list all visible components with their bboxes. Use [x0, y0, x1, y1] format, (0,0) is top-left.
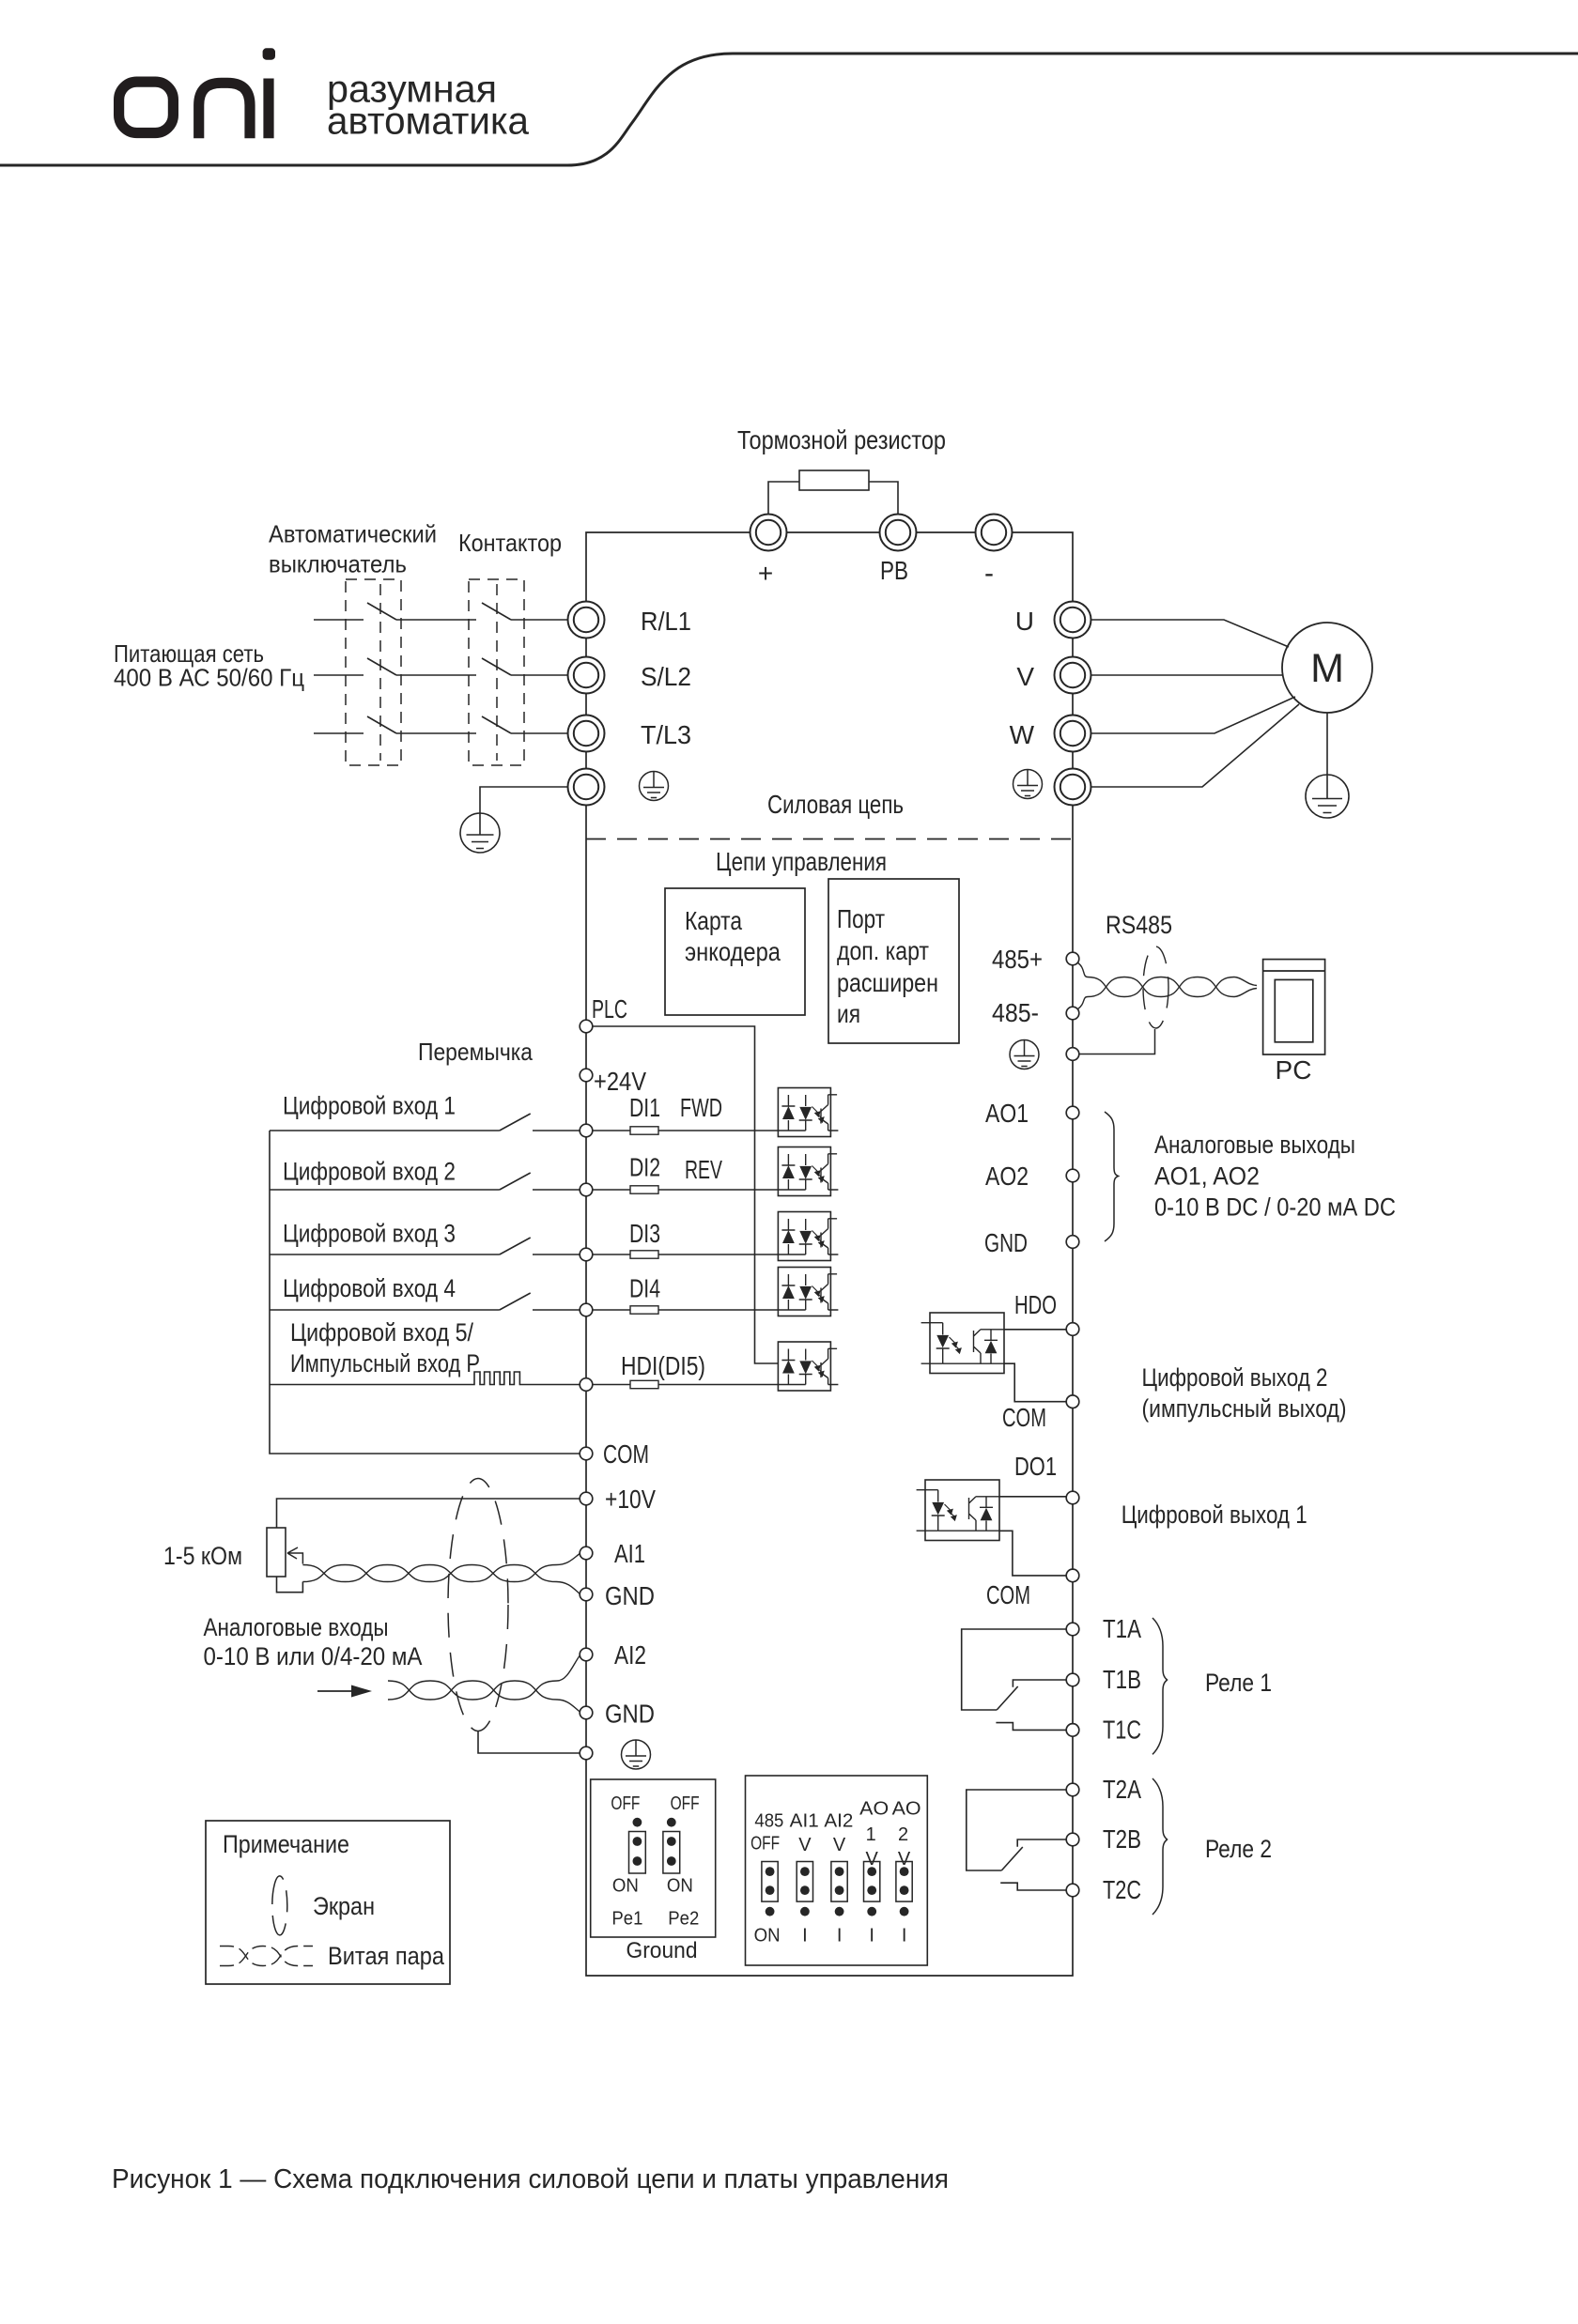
- svg-text:T2C: T2C: [1103, 1875, 1141, 1904]
- svg-text:Аналоговые выходы: Аналоговые выходы: [1154, 1131, 1355, 1159]
- optocoupler U4 DI4: [778, 1268, 838, 1316]
- shield drain wire RS485: [1079, 1029, 1155, 1054]
- svg-text:T2A: T2A: [1103, 1775, 1141, 1804]
- earth electrode symbol left: [460, 813, 500, 853]
- node +10V: [580, 1492, 593, 1505]
- relay Реле 1 brace: [1153, 1618, 1168, 1754]
- svg-text:R/L1: R/L1: [641, 607, 691, 636]
- node GND analog 1: [580, 1588, 593, 1601]
- svg-text:S/L2: S/L2: [641, 662, 691, 691]
- PC monitor: [1263, 960, 1325, 1054]
- svg-text:Автоматический: Автоматический: [269, 520, 437, 548]
- twisted pair AI2 strand A: [388, 1655, 580, 1700]
- svg-text:T1B: T1B: [1103, 1665, 1141, 1694]
- node 485-: [1066, 1007, 1079, 1020]
- svg-text:AI1: AI1: [790, 1811, 819, 1832]
- resistor DI1: [630, 1127, 658, 1134]
- brake resistor: [799, 470, 869, 490]
- node DI1: [580, 1124, 593, 1137]
- legend shield ellipse: [272, 1876, 287, 1935]
- svg-text:V: V: [866, 1849, 879, 1870]
- wire resistor to optocoupler DI1: [658, 1130, 778, 1131]
- svg-text:I: I: [837, 1926, 843, 1947]
- svg-text:Рисунок 1 — Схема подключения: Рисунок 1 — Схема подключения силовой це…: [112, 2164, 949, 2194]
- svg-text:T1A: T1A: [1103, 1614, 1141, 1643]
- svg-text:0-10 В DC / 0-20 мА DC: 0-10 В DC / 0-20 мА DC: [1154, 1193, 1396, 1222]
- node DO1: [1066, 1491, 1079, 1504]
- PE symbol at input: [640, 772, 669, 801]
- svg-text:485: 485: [754, 1811, 783, 1832]
- dip slider AI2: [831, 1862, 847, 1916]
- node COM: [580, 1447, 593, 1460]
- phase T supply wire: [314, 732, 364, 734]
- wire node to resistor DI3: [593, 1254, 630, 1255]
- svg-text:400 В АС 50/60 Гц: 400 В АС 50/60 Гц: [114, 664, 304, 692]
- svg-text:+24V: +24V: [594, 1067, 646, 1096]
- svg-text:DI3: DI3: [629, 1219, 660, 1248]
- legend twisted pair strand A: [220, 1947, 313, 1966]
- svg-text:Цифровой вход 4: Цифровой вход 4: [283, 1274, 456, 1302]
- svg-text:Порт: Порт: [837, 904, 885, 933]
- svg-text:W: W: [1010, 720, 1035, 749]
- resistor DI4: [630, 1306, 658, 1314]
- relay Реле 1 blade: [997, 1686, 1018, 1710]
- node DI2: [580, 1183, 593, 1196]
- terminal +: [750, 515, 787, 551]
- svg-text:Аналоговые входы: Аналоговые входы: [204, 1613, 389, 1641]
- svg-text:COM: COM: [603, 1439, 649, 1469]
- switch DI3 external contact: [270, 1238, 580, 1254]
- optocoupler HDO: [921, 1313, 1004, 1374]
- optocoupler U2 DI2: [778, 1147, 838, 1196]
- relay Реле 2 common wire: [967, 1790, 1066, 1870]
- wire node to resistor DI1: [593, 1130, 630, 1131]
- wire + to resistor: [768, 482, 799, 515]
- svg-text:Контактор: Контактор: [458, 529, 562, 557]
- svg-text:T/L3: T/L3: [641, 720, 691, 749]
- switch DI2 external contact: [270, 1173, 580, 1190]
- svg-text:+: +: [758, 559, 773, 588]
- wire motor to earth: [1326, 713, 1328, 775]
- legend twisted pair strand B: [220, 1947, 313, 1966]
- resistor DI2: [630, 1186, 658, 1193]
- PE symbol at output: [1013, 770, 1043, 799]
- expansion port box: [828, 879, 959, 1043]
- svg-text:Pe1: Pe1: [611, 1909, 642, 1930]
- contactor pole T blade: [482, 716, 511, 733]
- breaker pole T blade: [367, 716, 396, 733]
- terminal V: [1055, 657, 1091, 694]
- svg-text:Цепи управления: Цепи управления: [716, 847, 887, 876]
- svg-text:Тормозной резистор: Тормозной резистор: [737, 425, 946, 454]
- svg-text:HDO: HDO: [1014, 1290, 1057, 1319]
- svg-text:доп. карт: доп. карт: [837, 936, 929, 965]
- analog outputs brace: [1105, 1112, 1119, 1241]
- twisted pair AI1 strand B: [302, 1565, 580, 1594]
- wire breaker to contactor R: [396, 619, 476, 621]
- svg-text:COM: COM: [986, 1580, 1030, 1609]
- PE symbol RS485: [1010, 1040, 1039, 1070]
- svg-text:Цифровой вход 5/: Цифровой вход 5/: [290, 1318, 473, 1347]
- node AI1: [580, 1547, 593, 1560]
- svg-text:AO1: AO1: [985, 1099, 1029, 1128]
- motor M: [1282, 623, 1372, 713]
- note box Примечание: [206, 1821, 450, 1984]
- AI2 input arrow: [317, 1690, 355, 1692]
- svg-text:выключатель: выключатель: [269, 550, 407, 578]
- svg-text:ON: ON: [754, 1926, 781, 1947]
- breaker mechanism dashed link: [379, 584, 381, 761]
- phase S supply wire: [314, 674, 364, 676]
- svg-text:GND: GND: [605, 1700, 655, 1729]
- wire resistor to optocoupler DI3: [658, 1254, 778, 1255]
- svg-text:Перемычка: Перемычка: [418, 1038, 533, 1066]
- node T1B: [1066, 1673, 1079, 1686]
- node T2C: [1066, 1884, 1079, 1897]
- wire DO1 emitter to COM: [999, 1531, 1066, 1576]
- svg-text:+10V: +10V: [605, 1485, 656, 1514]
- dip slider AI1: [797, 1862, 812, 1916]
- circuit breaker QF dashed box: [346, 579, 401, 765]
- svg-text:автоматика: автоматика: [327, 100, 529, 143]
- jumper slider Pe1: [629, 1832, 646, 1874]
- svg-text:OFF: OFF: [671, 1793, 700, 1814]
- wire resistor to PB: [869, 482, 898, 515]
- svg-text:AO1, AO2: AO1, AO2: [1154, 1162, 1260, 1191]
- svg-text:Примечание: Примечание: [223, 1830, 349, 1858]
- wire resistor to optocoupler DI2: [658, 1189, 778, 1191]
- wire resistor to optocoupler HDI: [658, 1384, 778, 1386]
- dip switch box: [746, 1776, 928, 1965]
- resistor DI3: [630, 1251, 658, 1258]
- svg-text:V: V: [898, 1849, 911, 1870]
- optocoupler U5 HDI: [778, 1342, 838, 1391]
- node shield earth: [1066, 1048, 1079, 1061]
- node GND out: [1066, 1236, 1079, 1249]
- svg-text:энкодера: энкодера: [685, 937, 781, 966]
- node COM do1: [1066, 1569, 1079, 1582]
- svg-text:PB: PB: [880, 556, 908, 585]
- header rule curve: [0, 54, 1578, 165]
- wire node to resistor DI2: [593, 1189, 630, 1191]
- node +24V: [580, 1069, 593, 1082]
- svg-text:Цифровой вход 1: Цифровой вход 1: [283, 1092, 456, 1120]
- svg-text:Импульсный вход Р: Импульсный вход Р: [290, 1349, 480, 1377]
- switch DI4 external contact: [270, 1293, 580, 1310]
- svg-text:AO: AO: [859, 1799, 889, 1820]
- wire potentiometer bottom: [277, 1577, 303, 1593]
- wire breaker to contactor S: [396, 674, 476, 676]
- node AI2: [580, 1648, 593, 1661]
- node AO1: [1066, 1106, 1079, 1119]
- cable shield dashed ellipse: [448, 1479, 508, 1731]
- wire HDO collector to node: [1004, 1329, 1066, 1331]
- breaker pole S blade: [367, 658, 396, 675]
- contactor KM dashed box: [469, 579, 524, 765]
- wire contactor to terminal T: [511, 732, 567, 734]
- svg-text:OFF: OFF: [750, 1834, 780, 1855]
- breaker pole R blade: [367, 603, 396, 620]
- svg-text:M: M: [1310, 646, 1344, 691]
- pulse train symbol: [270, 1372, 580, 1385]
- wire PE terminal to earth: [480, 787, 567, 813]
- wire node to resistor DI4: [593, 1309, 630, 1311]
- svg-text:расширен: расширен: [837, 968, 938, 997]
- potentiometer 1-5 kOhm: [267, 1528, 286, 1577]
- wire PE to motor: [1091, 704, 1300, 787]
- svg-text:REV: REV: [685, 1155, 722, 1184]
- svg-text:AI2: AI2: [824, 1811, 853, 1832]
- wire HDO emitter to COM: [1004, 1363, 1066, 1402]
- svg-text:PLC: PLC: [592, 994, 627, 1023]
- wire W to motor: [1091, 697, 1296, 733]
- svg-text:485-: 485-: [992, 998, 1039, 1027]
- svg-text:0-10 В или 0/4-20 мА: 0-10 В или 0/4-20 мА: [204, 1642, 423, 1670]
- terminal -: [976, 515, 1013, 551]
- svg-text:GND: GND: [605, 1581, 655, 1610]
- RS485 twisted pair strand A: [1077, 962, 1257, 997]
- terminal S/L2: [568, 657, 605, 694]
- svg-text:Цифровой выход 2: Цифровой выход 2: [1142, 1363, 1328, 1392]
- wire resistor to optocoupler DI4: [658, 1309, 778, 1311]
- wire V to motor: [1091, 674, 1283, 676]
- svg-text:AI1: AI1: [614, 1539, 645, 1568]
- svg-text:GND: GND: [984, 1228, 1028, 1257]
- svg-text:HDI(DI5): HDI(DI5): [621, 1351, 705, 1380]
- relay Реле 1 common wire: [962, 1629, 1066, 1710]
- contactor pole S blade: [482, 658, 511, 675]
- switch DI1 external contact: [270, 1114, 580, 1131]
- svg-text:AO2: AO2: [985, 1162, 1029, 1191]
- svg-text:Цифровой вход 2: Цифровой вход 2: [283, 1158, 456, 1186]
- power/control divider dashed: [586, 839, 1073, 840]
- svg-text:DO1: DO1: [1014, 1452, 1057, 1481]
- svg-text:ON: ON: [667, 1876, 693, 1897]
- wire PLC feed to opto rail: [593, 1026, 778, 1363]
- svg-text:FWD: FWD: [680, 1093, 722, 1122]
- wire U to motor: [1091, 620, 1290, 647]
- terminal U: [1055, 602, 1091, 639]
- svg-text:Ground: Ground: [627, 1938, 698, 1963]
- jumper dot top Pe2: [667, 1818, 676, 1827]
- svg-text:I: I: [869, 1926, 874, 1947]
- svg-text:Реле 1: Реле 1: [1205, 1669, 1272, 1697]
- svg-text:Витая пара: Витая пара: [328, 1942, 445, 1970]
- svg-text:Силовая цепь: Силовая цепь: [767, 790, 904, 819]
- svg-text:DI1: DI1: [629, 1093, 660, 1122]
- contactor pole R blade: [482, 603, 511, 620]
- svg-text:Карта: Карта: [685, 906, 742, 935]
- ground jumper box: [591, 1779, 716, 1937]
- svg-text:ия: ия: [837, 999, 860, 1028]
- jumper dot top Pe1: [633, 1818, 642, 1827]
- relay Реле 2 NC stub: [1000, 1883, 1066, 1890]
- svg-text:Реле 2: Реле 2: [1205, 1835, 1272, 1863]
- node COM hdo: [1066, 1395, 1079, 1408]
- node AO2: [1066, 1169, 1079, 1182]
- wire node to resistor HDI: [593, 1384, 630, 1386]
- svg-text:OFF: OFF: [611, 1793, 640, 1814]
- svg-text:V: V: [833, 1835, 846, 1855]
- svg-text:Цифровой вход 3: Цифровой вход 3: [283, 1220, 456, 1248]
- optocoupler U3 DI3: [778, 1212, 838, 1261]
- svg-text:2: 2: [898, 1824, 908, 1845]
- RS485 shield dashed ellipse: [1143, 947, 1168, 1028]
- svg-text:DI2: DI2: [629, 1153, 660, 1182]
- relay Реле 2 brace: [1153, 1778, 1168, 1915]
- node GND analog 2: [580, 1706, 593, 1719]
- wire breaker to contactor T: [396, 732, 476, 734]
- jumper slider Pe2: [663, 1832, 680, 1874]
- node T1C: [1066, 1724, 1079, 1737]
- svg-text:T2B: T2B: [1103, 1824, 1141, 1854]
- svg-text:COM: COM: [1002, 1403, 1046, 1432]
- node DI3: [580, 1248, 593, 1261]
- terminal PE input: [568, 769, 605, 806]
- svg-text:AO: AO: [892, 1799, 921, 1820]
- relay Реле 1 NO stub: [1013, 1680, 1066, 1687]
- terminal R/L1: [568, 602, 605, 639]
- shield drain wire: [478, 1731, 580, 1754]
- RS485 twisted pair strand B: [1077, 977, 1257, 1010]
- node T2B: [1066, 1833, 1079, 1846]
- svg-text:I: I: [802, 1926, 808, 1947]
- node PLC: [580, 1020, 593, 1033]
- svg-text:(импульсный выход): (импульсный выход): [1142, 1394, 1347, 1423]
- potentiometer wiper arrow: [287, 1547, 302, 1564]
- svg-text:I: I: [902, 1926, 907, 1947]
- drive enclosure outline: [586, 532, 1073, 1976]
- node DI4: [580, 1303, 593, 1316]
- svg-text:Цифровой выход 1: Цифровой выход 1: [1122, 1501, 1307, 1529]
- phase R supply wire: [314, 619, 364, 621]
- dip slider AO2: [896, 1862, 912, 1916]
- wire DO1 collector to node: [999, 1496, 1066, 1498]
- svg-text:Экран: Экран: [313, 1892, 375, 1920]
- dip slider 485: [762, 1862, 778, 1916]
- digital input common rail: [270, 1131, 580, 1454]
- svg-text:1-5 кОм: 1-5 кОм: [163, 1542, 242, 1570]
- svg-text:T1C: T1C: [1103, 1715, 1141, 1744]
- svg-text:485+: 485+: [992, 945, 1043, 974]
- twisted pair AI2 strand B: [388, 1681, 580, 1712]
- resistor HDI: [630, 1380, 658, 1388]
- svg-text:V: V: [798, 1835, 812, 1855]
- wire contactor to terminal S: [511, 674, 567, 676]
- encoder card box: [665, 888, 805, 1015]
- svg-text:Pe2: Pe2: [668, 1909, 699, 1930]
- svg-text:DI4: DI4: [629, 1274, 660, 1303]
- terminal PE output: [1055, 769, 1091, 806]
- svg-text:U: U: [1015, 607, 1034, 636]
- earth electrode symbol motor: [1306, 775, 1349, 818]
- optocoupler DO1: [917, 1480, 999, 1541]
- oni logo: [119, 79, 269, 139]
- node T1A: [1066, 1623, 1079, 1636]
- terminal W: [1055, 716, 1091, 752]
- relay Реле 2 blade: [1001, 1847, 1023, 1870]
- relay Реле 1 NC stub: [996, 1723, 1066, 1731]
- optocoupler U1 DI1: [778, 1088, 838, 1137]
- svg-text:V: V: [1016, 662, 1034, 691]
- node HDO: [1066, 1323, 1079, 1336]
- svg-text:PC: PC: [1276, 1055, 1312, 1085]
- node HDI: [580, 1378, 593, 1392]
- PE symbol analog: [622, 1740, 651, 1769]
- dip slider AO1: [864, 1862, 880, 1916]
- wire contactor to terminal R: [511, 619, 567, 621]
- svg-text:-: -: [984, 558, 994, 589]
- svg-text:1: 1: [866, 1824, 876, 1845]
- svg-text:AI2: AI2: [614, 1640, 646, 1670]
- node PE analog: [580, 1747, 593, 1760]
- terminal PB: [880, 515, 917, 551]
- svg-text:RS485: RS485: [1106, 911, 1172, 939]
- node T2A: [1066, 1783, 1079, 1796]
- terminal T/L3: [568, 716, 605, 752]
- relay Реле 2 NO stub: [1017, 1839, 1066, 1847]
- wire +10V to potentiometer: [277, 1499, 580, 1528]
- twisted pair AI1 strand A: [302, 1554, 580, 1582]
- svg-text:ON: ON: [612, 1876, 639, 1897]
- node 485+: [1066, 952, 1079, 965]
- contactor mechanism dashed link: [496, 584, 498, 761]
